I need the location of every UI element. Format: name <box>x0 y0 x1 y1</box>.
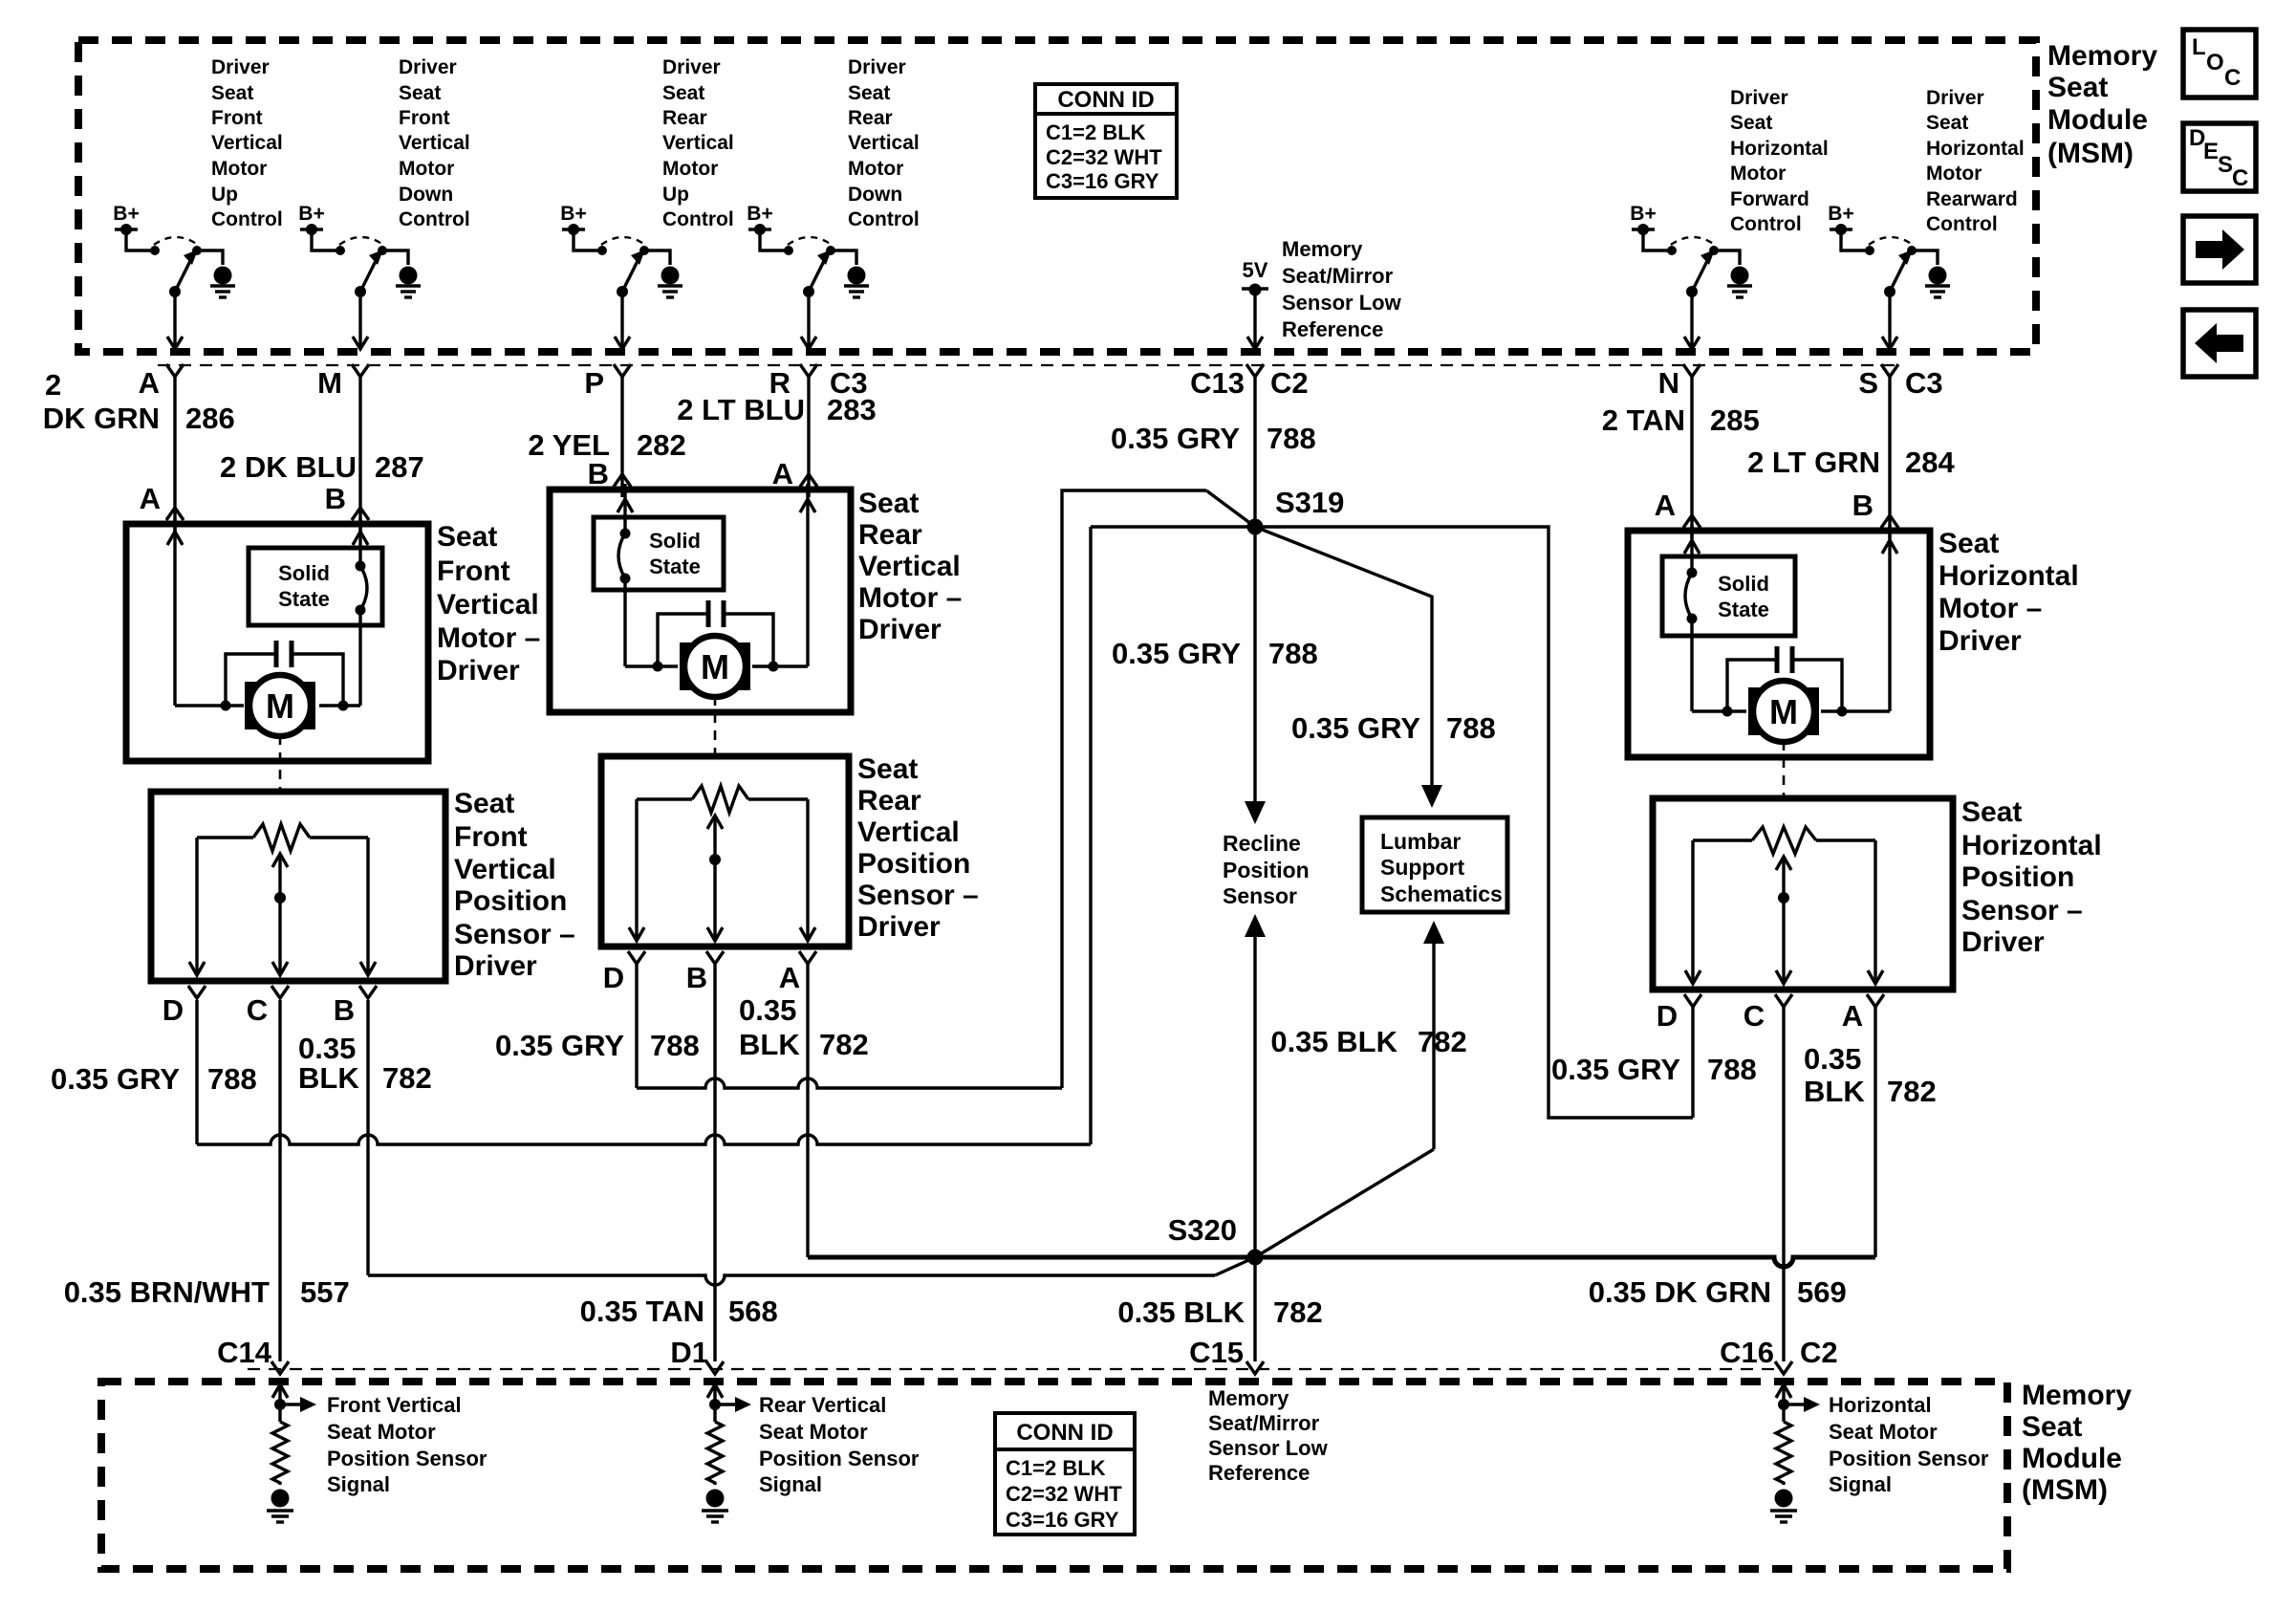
label: Driver Seat Horizontal Motor Forward Control switch S5 text <box>1730 87 1829 235</box>
svg-text:Horizontal: Horizontal <box>1829 1393 1932 1417</box>
connector chevron pin A at motor, x=1770 <box>1655 489 1700 528</box>
svg-text:Recline: Recline <box>1223 831 1301 856</box>
svg-text:Driver: Driver <box>1961 926 2045 958</box>
svg-text:B+: B+ <box>113 203 139 225</box>
svg-text:2 LT BLU: 2 LT BLU <box>677 393 805 426</box>
label: 0.35 DK GRN 569 <box>1589 1275 1847 1309</box>
sensor wire third leg (Seat Horizontal) <box>1868 840 1883 984</box>
B+ terminal for Driver Seat Rear Vertical Motor Up Control switch S3 <box>560 203 586 235</box>
svg-text:Horizontal: Horizontal <box>1926 138 2025 160</box>
svg-text:C3=16 GRY: C3=16 GRY <box>1006 1508 1119 1532</box>
svg-text:Vertical: Vertical <box>454 854 556 885</box>
connector chevron pin A at motor, x=183 <box>140 482 184 520</box>
label: 0.35 GRY 788 (S319 to recline) <box>1112 637 1318 670</box>
Driver Seat Front Vertical Motor Up Control switch S1 <box>126 229 223 349</box>
svg-text:Sensor Low: Sensor Low <box>1282 291 1402 315</box>
svg-text:Seat Motor: Seat Motor <box>327 1420 436 1444</box>
svg-text:B: B <box>588 457 609 490</box>
svg-text:BLK: BLK <box>298 1061 359 1095</box>
svg-text:Sensor: Sensor <box>1223 883 1297 908</box>
svg-text:Motor –: Motor – <box>1939 593 2042 624</box>
svg-text:C: C <box>247 993 268 1027</box>
ground symbol (Horizontal sensor signal) <box>1770 1490 1797 1523</box>
svg-text:788: 788 <box>1268 637 1318 670</box>
svg-text:S320: S320 <box>1168 1213 1237 1247</box>
Lumbar Support Schematics box <box>1362 817 1507 912</box>
svg-text:Down: Down <box>848 184 902 206</box>
svg-text:Sensor –: Sensor – <box>1961 895 2083 926</box>
svg-text:2 LT GRN: 2 LT GRN <box>1747 446 1880 479</box>
svg-text:C2: C2 <box>1800 1336 1838 1369</box>
connector pin D below Seat Rear Vertical sensor <box>603 951 645 994</box>
svg-text:0.35 TAN: 0.35 TAN <box>580 1295 704 1328</box>
sensor wiper leg (Seat Front Vertical) <box>272 854 288 975</box>
dashed mechanical link motor to sensor (front) <box>279 735 282 792</box>
Driver Seat Front Vertical Motor Down Control switch S2 <box>312 229 408 349</box>
svg-text:S319: S319 <box>1275 486 1344 519</box>
svg-text:Driver: Driver <box>848 56 906 78</box>
wire B inside horizontal motor box <box>1821 525 1897 711</box>
svg-text:Memory: Memory <box>1208 1386 1289 1410</box>
connector pin C below Seat Front Vertical sensor <box>247 986 289 1027</box>
svg-text:Rear Vertical: Rear Vertical <box>759 1393 886 1417</box>
sensor wire D leg (Seat Horizontal) <box>1685 840 1700 984</box>
svg-text:Memory: Memory <box>2047 40 2157 72</box>
svg-text:788: 788 <box>1446 711 1496 745</box>
connector symbol at R-wire <box>800 364 817 377</box>
svg-text:Seat/Mirror: Seat/Mirror <box>1282 264 1394 288</box>
svg-text:Up: Up <box>211 184 238 206</box>
svg-text:Motor –: Motor – <box>437 622 540 654</box>
B+ terminal for Driver Seat Horizontal Motor Rearward Control switch S6 <box>1828 203 1853 235</box>
svg-text:A: A <box>1655 489 1676 522</box>
wire: 0.35 GRY 788 from C2 down to S319 <box>1253 377 1256 527</box>
svg-text:0.35 GRY: 0.35 GRY <box>1551 1053 1680 1086</box>
label: Seat Front Vertical Motor - Driver <box>437 521 540 686</box>
svg-text:B: B <box>334 993 355 1027</box>
svg-text:C15: C15 <box>1189 1336 1244 1369</box>
label: Memory Seat Module (MSM) bottom right <box>2022 1380 2132 1506</box>
sensor wire D leg (Seat Rear Vertical) <box>629 799 644 941</box>
connector pin C below Seat Horizontal sensor <box>1744 994 1792 1033</box>
svg-text:S: S <box>2218 152 2233 178</box>
svg-text:Module: Module <box>2022 1443 2122 1474</box>
svg-text:P: P <box>584 366 604 400</box>
potentiometer resistor (Seat Rear Vertical) <box>637 786 808 813</box>
svg-text:C2: C2 <box>1270 366 1309 400</box>
ground symbol for Driver Seat Rear Vertical Motor Down Control switch S4 <box>844 267 869 298</box>
svg-text:Position Sensor: Position Sensor <box>1829 1447 1989 1470</box>
connector symbol at A-wire <box>166 364 184 377</box>
connector symbol at C14 <box>271 1361 289 1374</box>
svg-text:Seat: Seat <box>1730 112 1772 134</box>
svg-text:Control: Control <box>211 208 283 230</box>
label: wire 284 2 LT GRN label <box>1747 446 1955 479</box>
svg-text:Driver: Driver <box>662 56 721 78</box>
svg-text:Sensor –: Sensor – <box>857 880 979 911</box>
sensor wiper leg (Seat Horizontal) <box>1776 857 1791 984</box>
sensor wire third leg (Seat Front Vertical) <box>360 838 376 975</box>
svg-text:Seat: Seat <box>2022 1411 2082 1443</box>
svg-text:Seat: Seat <box>858 488 919 519</box>
svg-text:C14: C14 <box>217 1336 272 1369</box>
svg-text:Down: Down <box>399 184 453 206</box>
svg-text:Reference: Reference <box>1282 317 1383 341</box>
label: Seat Rear Vertical Motor - Driver <box>858 488 962 645</box>
svg-text:(MSM): (MSM) <box>2022 1474 2108 1506</box>
Driver Seat Horizontal Motor Rearward Control switch S6 <box>1841 229 1938 349</box>
svg-text:Seat: Seat <box>1926 112 1968 134</box>
svg-text:Seat: Seat <box>211 82 253 104</box>
svg-text:Vertical: Vertical <box>858 551 961 582</box>
svg-text:Position: Position <box>857 848 970 880</box>
svg-text:Seat: Seat <box>399 82 441 104</box>
svg-text:Rear: Rear <box>848 107 893 129</box>
wire A inside rear vertical motor box <box>752 484 815 666</box>
connector chevron pin B at motor, x=377 <box>325 482 369 520</box>
B+ terminal for Driver Seat Front Vertical Motor Up Control switch S1 <box>113 203 139 235</box>
svg-text:0.35 GRY: 0.35 GRY <box>1112 637 1241 670</box>
svg-text:State: State <box>1718 598 1769 621</box>
wire S/B to Seat Horizontal Motor <box>1888 377 1891 538</box>
ground symbol for Driver Seat Front Vertical Motor Down Control switch S2 <box>396 267 421 298</box>
connector chevron pin B at motor, x=651 <box>588 457 631 490</box>
svg-text:B: B <box>1852 489 1874 522</box>
label: Driver Seat Front Vertical Motor Up Control switch S1 text <box>211 56 283 230</box>
connector pin D below Seat Front Vertical sensor <box>162 986 206 1027</box>
potentiometer resistor (Seat Horizontal) <box>1693 827 1875 854</box>
connector symbol at C13/C2-wire <box>1246 364 1264 377</box>
label: Memory Seat Module (MSM) top right <box>2047 40 2157 169</box>
svg-text:State: State <box>278 587 330 611</box>
svg-text:Front Vertical: Front Vertical <box>327 1393 462 1417</box>
svg-text:Driver: Driver <box>399 56 457 78</box>
wire: 5V reference down to connector C2 <box>1247 290 1263 349</box>
svg-text:5V: 5V <box>1243 258 1268 282</box>
svg-text:Driver: Driver <box>211 56 270 78</box>
svg-text:Seat Motor: Seat Motor <box>1829 1420 1938 1444</box>
svg-text:E: E <box>2203 139 2219 164</box>
CONN ID legend box (bottom) <box>995 1413 1135 1535</box>
CONN ID legend box (top) <box>1035 84 1177 198</box>
svg-text:Front: Front <box>399 107 450 129</box>
label: wire 283 2 LT BLU label <box>677 393 876 426</box>
svg-text:D: D <box>603 961 624 994</box>
svg-text:788: 788 <box>1267 422 1316 455</box>
svg-text:Signal: Signal <box>327 1472 390 1496</box>
Seat Horizontal Motor - Driver box <box>1628 531 1930 757</box>
resistor to ground: Front Vertical position sensor signal input <box>272 1384 316 1485</box>
wire: S319 branch to Seat Horizontal sensor pin D <box>1091 527 1693 1118</box>
wire B inside rear vertical motor box <box>617 484 678 666</box>
svg-text:M: M <box>317 366 342 400</box>
svg-text:C3=16 GRY: C3=16 GRY <box>1046 169 1159 193</box>
svg-text:A: A <box>140 482 161 515</box>
svg-text:S: S <box>1858 366 1878 400</box>
svg-text:M: M <box>701 647 729 686</box>
label: 0.35 BLK 782 (front sensor B) <box>298 1032 432 1095</box>
svg-text:Solid: Solid <box>1718 572 1769 596</box>
ground symbol for Driver Seat Rear Vertical Motor Up Control switch S3 <box>658 267 682 298</box>
svg-text:DK GRN: DK GRN <box>43 402 160 435</box>
svg-text:0.35 BLK: 0.35 BLK <box>1270 1025 1397 1058</box>
wire P/B to Seat Rear Vertical Motor <box>620 377 623 497</box>
label: 0.35 GRY 788 (rear sensor D) <box>495 1029 700 1062</box>
label: Seat Front Vertical Position Sensor - Driver <box>454 788 575 982</box>
svg-text:Seat: Seat <box>437 521 497 553</box>
capacitor across rear vertical motor <box>653 600 779 672</box>
svg-text:283: 283 <box>827 393 877 426</box>
svg-text:Signal: Signal <box>759 1472 822 1496</box>
Seat Front Vertical Position Sensor box <box>151 792 445 981</box>
svg-text:2 DK BLU: 2 DK BLU <box>220 450 357 484</box>
label: 0.35 GRY 788 (horizontal sensor D) <box>1551 1053 1757 1086</box>
svg-text:Position: Position <box>454 885 567 917</box>
MSM bottom connector dashed line <box>248 1368 1774 1370</box>
motor M (Seat Rear Vertical) <box>680 636 750 697</box>
svg-text:282: 282 <box>637 428 686 462</box>
label: 0.35 BRN/WHT 557 <box>64 1275 350 1309</box>
connector chevron pin A at motor, x=846 <box>772 457 817 490</box>
ground symbol (Front Vertical sensor signal) <box>267 1490 293 1523</box>
solid state switch box (horizontal motor) <box>1662 556 1795 636</box>
svg-text:2: 2 <box>45 368 61 402</box>
potentiometer resistor (Seat Front Vertical) <box>197 824 368 851</box>
svg-text:M: M <box>266 686 294 726</box>
label: wire 286 2 DK GRN label <box>43 402 235 435</box>
MSM top connector dashed line <box>158 364 1902 366</box>
svg-text:0.35 GRY: 0.35 GRY <box>51 1062 180 1096</box>
svg-text:Front: Front <box>454 821 528 853</box>
svg-text:788: 788 <box>1707 1053 1757 1086</box>
sensor wire third leg (Seat Rear Vertical) <box>800 799 815 941</box>
solid state switch box (rear vertical motor) <box>594 517 724 590</box>
svg-text:782: 782 <box>1887 1075 1937 1108</box>
svg-text:Seat: Seat <box>454 788 514 819</box>
svg-text:CONN ID: CONN ID <box>1016 1420 1113 1446</box>
svg-text:782: 782 <box>819 1028 869 1061</box>
svg-text:Motor: Motor <box>1926 163 1982 185</box>
label: Recline Position Sensor <box>1223 831 1310 908</box>
svg-text:BLK: BLK <box>739 1028 800 1061</box>
svg-text:Control: Control <box>1730 213 1802 235</box>
Seat Horizontal Position Sensor box <box>1653 798 1953 990</box>
svg-text:D: D <box>1657 999 1678 1033</box>
svg-text:Driver: Driver <box>1939 625 2022 657</box>
Memory Seat Module (MSM) top dashed enclosure <box>78 40 2036 352</box>
svg-text:B+: B+ <box>1630 203 1656 225</box>
svg-text:Solid: Solid <box>278 561 330 585</box>
svg-text:569: 569 <box>1797 1275 1847 1309</box>
svg-text:287: 287 <box>375 450 424 484</box>
svg-text:Seat: Seat <box>2047 72 2108 103</box>
svg-text:Horizontal: Horizontal <box>1961 830 2102 861</box>
motor M (Seat Front Vertical) <box>245 675 315 736</box>
connector symbol at N-wire <box>1683 364 1700 377</box>
label: 0.35 BLK 782 (horizontal sensor A) <box>1804 1042 1937 1108</box>
label: Driver Seat Front Vertical Motor Down Control switch S2 text <box>399 56 470 230</box>
svg-text:Driver: Driver <box>1730 87 1788 109</box>
svg-text:Sensor –: Sensor – <box>454 919 575 950</box>
wire N/A to Seat Horizontal Motor <box>1690 377 1693 538</box>
svg-text:A: A <box>779 961 800 994</box>
svg-text:Driver: Driver <box>858 614 942 645</box>
svg-text:Seat: Seat <box>1939 528 1999 559</box>
wire: recline sensor up-arrow to S320 and down to C15 <box>1245 914 1266 1361</box>
Memory Seat Module (MSM) bottom dashed enclosure <box>101 1382 2007 1569</box>
svg-text:Control: Control <box>1926 213 1998 235</box>
svg-text:Position: Position <box>1961 861 2074 893</box>
svg-text:B+: B+ <box>747 203 772 225</box>
svg-text:Seat: Seat <box>662 82 704 104</box>
svg-text:Front: Front <box>437 555 510 587</box>
label: Driver Seat Rear Vertical Motor Down Control switch S4 text <box>848 56 920 230</box>
label: Memory Seat/Mirror Sensor Low Reference (bottom) <box>1208 1386 1329 1485</box>
svg-text:Rear: Rear <box>857 785 921 816</box>
svg-text:Vertical: Vertical <box>857 816 960 848</box>
label: wire 285 2 TAN label <box>1602 403 1760 437</box>
wire: front sensor B to S320 <box>368 1000 1255 1285</box>
resistor to ground: Rear Vertical position sensor signal input <box>707 1384 751 1485</box>
B+ terminal for Driver Seat Front Vertical Motor Down Control switch S2 <box>298 203 324 235</box>
wire: S319 branch to Seat Front Vertical sensor pin D <box>197 527 1091 1144</box>
svg-text:568: 568 <box>728 1295 778 1328</box>
svg-text:(MSM): (MSM) <box>2047 138 2134 169</box>
svg-text:Seat/Mirror: Seat/Mirror <box>1208 1411 1320 1435</box>
label: Driver Seat Horizontal Motor Rearward Control switch S6 text <box>1926 87 2025 235</box>
svg-text:788: 788 <box>650 1029 700 1062</box>
B+ terminal for Driver Seat Rear Vertical Motor Down Control switch S4 <box>747 203 772 235</box>
svg-text:Forward: Forward <box>1730 188 1809 210</box>
svg-text:Horizontal: Horizontal <box>1730 138 1829 160</box>
svg-text:C16: C16 <box>1720 1336 1774 1369</box>
svg-text:B+: B+ <box>298 203 324 225</box>
label: Horizontal Seat Motor Position Sensor Signal <box>1829 1393 1989 1496</box>
svg-text:A: A <box>139 366 160 400</box>
label: Rear Vertical Seat Motor Position Sensor Signal <box>759 1393 920 1496</box>
svg-text:B: B <box>325 482 346 515</box>
svg-text:0.35 BRN/WHT: 0.35 BRN/WHT <box>64 1275 270 1309</box>
svg-text:0.35 DK GRN: 0.35 DK GRN <box>1589 1275 1771 1309</box>
svg-text:Memory: Memory <box>2022 1380 2132 1411</box>
label: Seat Horizontal Position Sensor - Driver <box>1961 796 2102 958</box>
svg-text:C3: C3 <box>1905 366 1943 400</box>
wire: 0.35 DK GRN 569 horizontal sensor C down to C16 <box>1782 1007 1785 1361</box>
svg-text:0.35 GRY: 0.35 GRY <box>1111 422 1240 455</box>
svg-text:285: 285 <box>1710 403 1760 437</box>
label: wire 788 0.35 GRY label <box>1111 422 1316 455</box>
svg-text:O: O <box>2206 50 2224 76</box>
solid state switch box (front vertical motor) <box>249 548 382 625</box>
svg-text:Position Sensor: Position Sensor <box>759 1447 920 1470</box>
label: 0.35 BLK 782 (recline/lumbar return branch) <box>1270 1025 1466 1058</box>
Seat Rear Vertical Motor - Driver box <box>550 490 851 712</box>
svg-text:Rearward: Rearward <box>1926 188 2018 210</box>
label: Memory Seat/Mirror Sensor Low Reference (top) <box>1282 237 1402 341</box>
label: 0.35 GRY 788 (front sensor D) <box>51 1062 257 1096</box>
svg-text:C: C <box>1744 999 1765 1033</box>
pin labels row below MSM connector <box>45 366 1943 402</box>
svg-text:C1=2 BLK: C1=2 BLK <box>1006 1456 1106 1480</box>
sensor wire D leg (Seat Front Vertical) <box>189 838 205 975</box>
svg-text:Front: Front <box>211 107 263 129</box>
5V supply terminal <box>1242 258 1268 296</box>
svg-text:Control: Control <box>399 208 470 230</box>
connector pin B below Seat Rear Vertical sensor <box>686 951 724 994</box>
pin labels bottom connector row <box>217 1336 1838 1369</box>
icon: LOC button <box>2183 30 2256 98</box>
svg-text:C: C <box>2224 65 2241 91</box>
wire A inside front vertical motor box <box>167 518 244 706</box>
svg-text:Signal: Signal <box>1829 1472 1892 1496</box>
svg-text:Motor –: Motor – <box>858 582 962 614</box>
svg-text:Control: Control <box>848 208 920 230</box>
wire: 0.35 TAN 568 rear sensor B down to D1 <box>713 964 716 1361</box>
resistor to ground: Horizontal position sensor signal input <box>1776 1384 1820 1485</box>
label: 0.35 GRY 788 (S319 to lumbar) <box>1291 711 1496 745</box>
Driver Seat Horizontal Motor Forward Control switch S5 <box>1643 229 1740 349</box>
sensor wiper leg (Seat Rear Vertical) <box>707 816 723 941</box>
svg-text:C1=2 BLK: C1=2 BLK <box>1046 120 1146 144</box>
label: Driver Seat Rear Vertical Motor Up Control switch S3 text <box>662 56 734 230</box>
svg-text:CONN ID: CONN ID <box>1057 87 1154 113</box>
capacitor across front vertical motor <box>221 641 349 711</box>
svg-text:Seat Motor: Seat Motor <box>759 1420 868 1444</box>
svg-text:782: 782 <box>382 1061 432 1095</box>
wire: lumbar up-arrow down to S320 diagonal <box>1255 921 1444 1257</box>
icon: next arrow button <box>2183 216 2256 283</box>
svg-text:A: A <box>1842 999 1863 1033</box>
connector pin B below Seat Front Vertical sensor <box>334 986 377 1027</box>
svg-text:L: L <box>2192 34 2206 60</box>
svg-text:Up: Up <box>662 184 689 206</box>
ground symbol for Driver Seat Front Vertical Motor Up Control switch S1 <box>210 267 235 298</box>
connector chevron pin B at motor, x=1977 <box>1852 489 1898 528</box>
svg-text:Position Sensor: Position Sensor <box>327 1447 487 1470</box>
label: 0.35 BLK 782 (rear sensor A) <box>739 993 869 1061</box>
svg-text:A: A <box>772 457 793 490</box>
svg-text:Vertical: Vertical <box>399 132 470 154</box>
wire B inside front vertical motor box <box>319 518 368 706</box>
svg-text:Lumbar: Lumbar <box>1380 829 1461 854</box>
node S319 splice <box>1247 486 1345 535</box>
icon: DESC button <box>2183 123 2256 191</box>
wire: 0.35 BLK 782 bus through S320 (rear sensor A to horizontal sensor A) <box>808 964 1875 1267</box>
svg-text:284: 284 <box>1905 446 1955 479</box>
ground symbol for Driver Seat Horizontal Motor Rearward Control switch S6 <box>1925 267 1950 298</box>
B+ terminal for Driver Seat Horizontal Motor Forward Control switch S5 <box>1630 203 1656 235</box>
svg-text:Motor: Motor <box>662 158 718 180</box>
svg-text:557: 557 <box>300 1275 350 1309</box>
label: Seat Horizontal Motor - Driver <box>1939 528 2079 657</box>
svg-text:Module: Module <box>2047 104 2148 136</box>
svg-text:Support: Support <box>1380 855 1464 880</box>
svg-text:Seat: Seat <box>857 753 918 785</box>
connector symbol at M-wire <box>352 364 369 377</box>
svg-text:State: State <box>649 555 701 578</box>
svg-text:N: N <box>1658 366 1679 400</box>
svg-text:Motor: Motor <box>848 158 903 180</box>
svg-text:B: B <box>686 961 707 994</box>
svg-text:Vertical: Vertical <box>211 132 283 154</box>
motor M (Seat Horizontal) <box>1748 681 1819 742</box>
ground symbol for Driver Seat Horizontal Motor Forward Control switch S5 <box>1727 267 1752 298</box>
svg-text:Memory: Memory <box>1282 237 1363 261</box>
svg-text:Rear: Rear <box>858 519 922 551</box>
svg-text:Motor: Motor <box>399 158 454 180</box>
wire M/B to Seat Front Vertical Motor <box>358 377 361 532</box>
label: 0.35 TAN 568 <box>580 1295 778 1328</box>
